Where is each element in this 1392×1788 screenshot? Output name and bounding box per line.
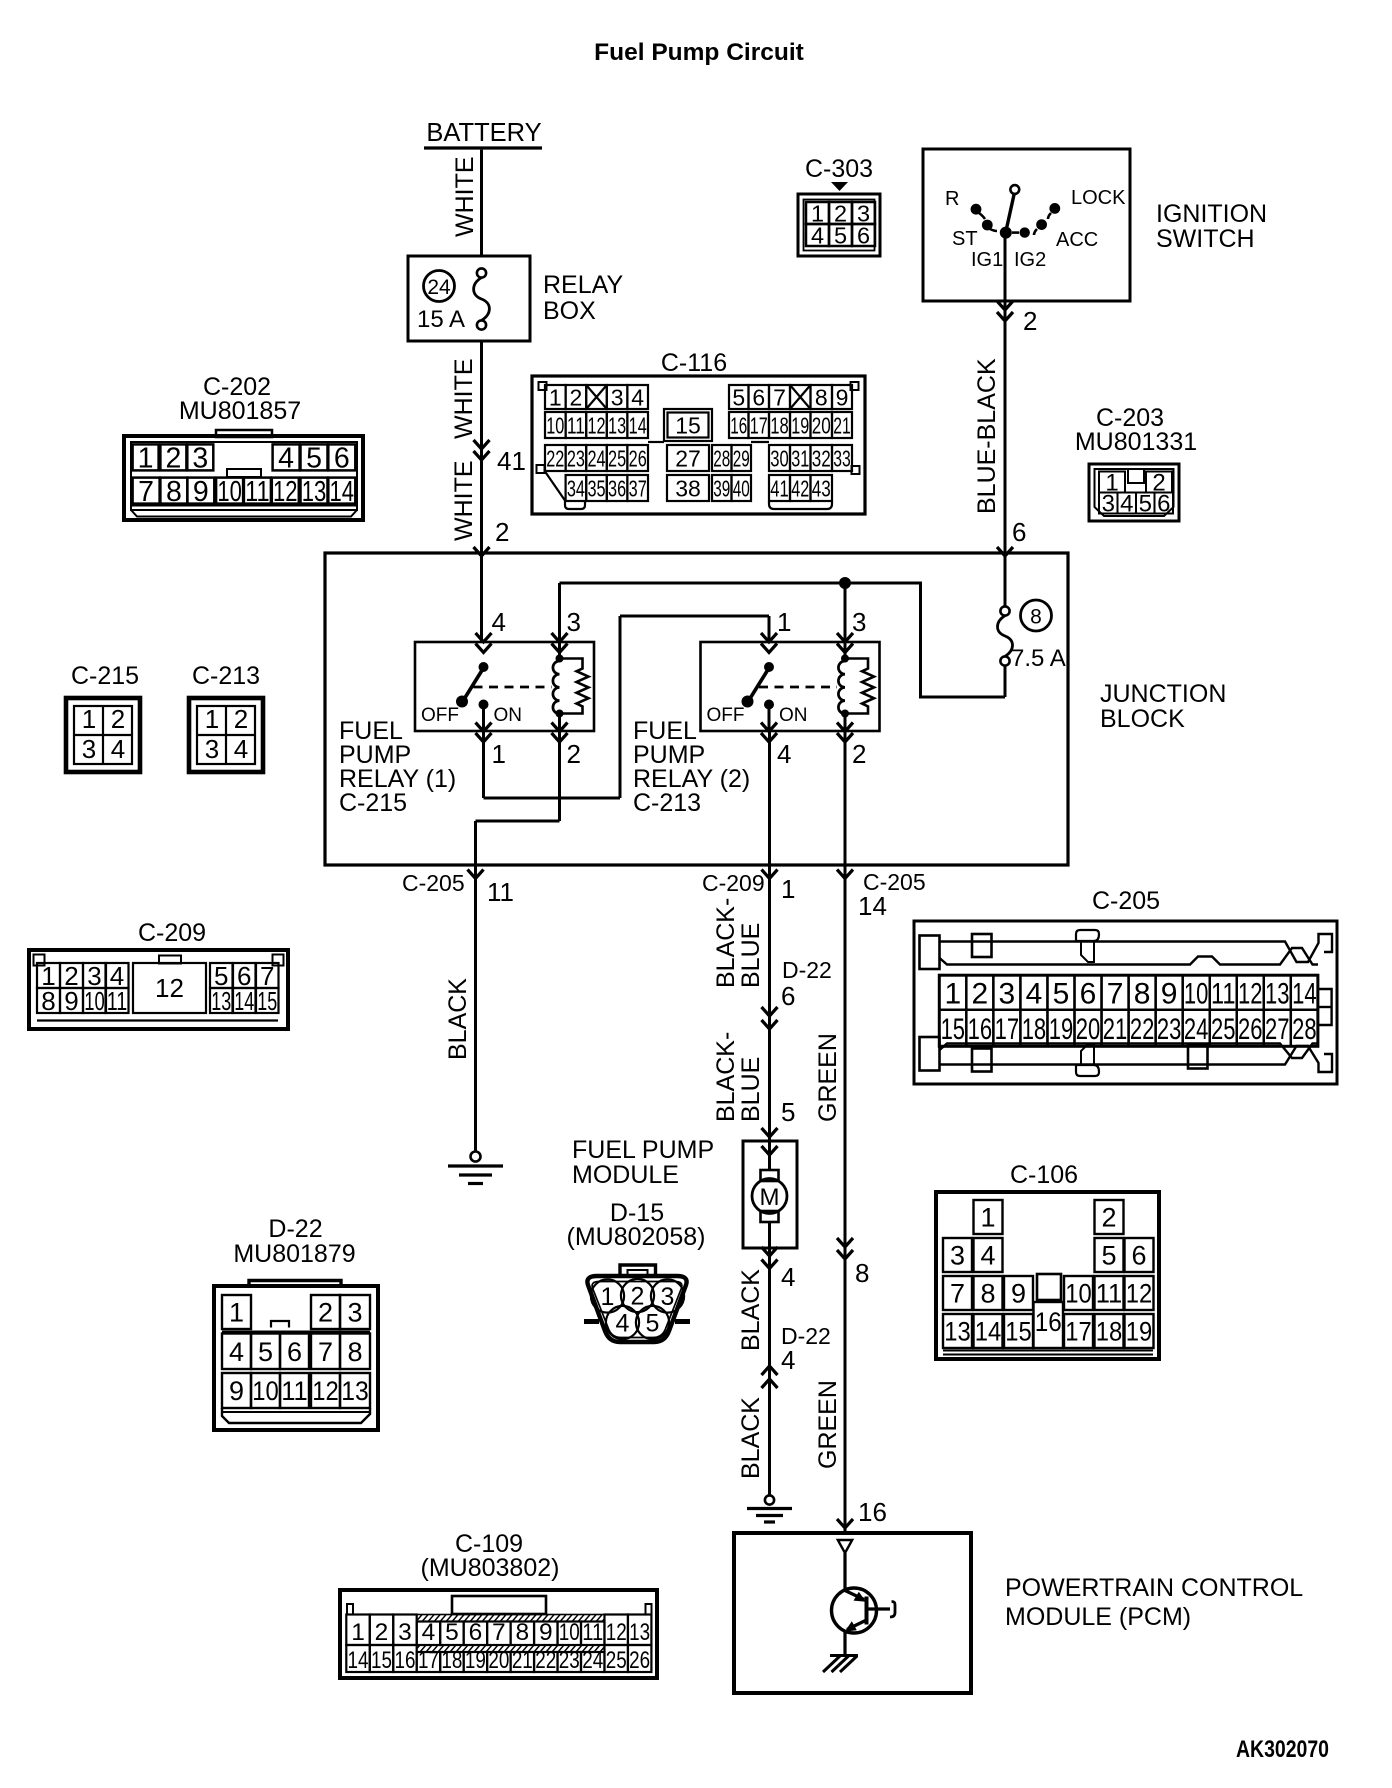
- svg-text:6: 6: [334, 443, 350, 475]
- svg-text:8: 8: [1030, 606, 1042, 629]
- svg-text:14: 14: [234, 986, 254, 1016]
- svg-text:16: 16: [730, 412, 747, 438]
- svg-text:8: 8: [855, 1258, 869, 1288]
- svg-text:38: 38: [675, 475, 701, 501]
- svg-text:ACC: ACC: [1056, 229, 1098, 251]
- svg-text:35: 35: [587, 475, 605, 501]
- connector C-215: [66, 662, 140, 772]
- title: Fuel Pump Circuit: [594, 39, 804, 66]
- svg-text:IG1: IG1: [971, 249, 1003, 271]
- svg-text:11: 11: [582, 1619, 603, 1646]
- svg-text:10: 10: [1065, 1279, 1092, 1309]
- svg-text:7: 7: [318, 1337, 333, 1367]
- fuse F8 7.5A: [998, 553, 1066, 697]
- svg-text:42: 42: [791, 475, 809, 501]
- svg-text:1: 1: [351, 1619, 365, 1646]
- svg-text:6: 6: [1012, 517, 1026, 547]
- ignition label IG1: [971, 249, 1003, 271]
- svg-text:1: 1: [205, 704, 219, 734]
- svg-text:16: 16: [858, 1497, 887, 1527]
- svg-text:5: 5: [1101, 1241, 1116, 1271]
- svg-text:43: 43: [812, 475, 831, 501]
- ground G (left): [448, 1152, 503, 1184]
- svg-text:14: 14: [858, 891, 887, 921]
- chassis ground (PCM): [823, 1656, 858, 1673]
- svg-text:4: 4: [492, 607, 506, 637]
- svg-text:5: 5: [306, 443, 322, 475]
- svg-text:11: 11: [245, 476, 270, 508]
- relay 2 pin arrows and numbers: [761, 607, 866, 769]
- svg-text:13: 13: [1265, 977, 1290, 1010]
- svg-text:10: 10: [84, 986, 105, 1016]
- relay 2 switch: [707, 662, 838, 731]
- svg-text:R: R: [945, 188, 959, 210]
- svg-text:C-215: C-215: [71, 662, 139, 690]
- svg-text:2: 2: [852, 739, 866, 769]
- svg-text:7: 7: [950, 1279, 965, 1309]
- C-205 top latch: [920, 930, 1333, 969]
- svg-text:5: 5: [834, 222, 847, 248]
- svg-text:6: 6: [857, 222, 870, 248]
- svg-text:2: 2: [567, 739, 581, 769]
- svg-text:C-213: C-213: [192, 662, 260, 690]
- svg-text:12: 12: [273, 476, 298, 508]
- svg-text:MU801331: MU801331: [1075, 428, 1197, 456]
- svg-text:4: 4: [631, 384, 644, 410]
- svg-text:34: 34: [567, 475, 585, 501]
- svg-text:8: 8: [41, 986, 55, 1016]
- svg-text:10: 10: [546, 412, 564, 438]
- svg-text:4: 4: [781, 1262, 795, 1292]
- wire: BLACK to ground (C-205 pin 11): [402, 865, 514, 1152]
- svg-text:12: 12: [1126, 1279, 1153, 1309]
- C-205 side lock: [1318, 989, 1332, 1025]
- wire: fuse 8 to relay coils (node): [560, 583, 1006, 699]
- svg-text:4: 4: [980, 1241, 995, 1271]
- svg-text:14: 14: [1292, 977, 1317, 1010]
- svg-text:13: 13: [341, 1376, 369, 1406]
- svg-text:9: 9: [229, 1376, 244, 1406]
- svg-text:16: 16: [968, 1013, 993, 1046]
- svg-text:9: 9: [836, 384, 849, 410]
- svg-text:M: M: [760, 1184, 780, 1211]
- svg-text:11: 11: [1211, 977, 1236, 1010]
- svg-text:BATTERY: BATTERY: [426, 119, 541, 147]
- svg-text:IGNITION: IGNITION: [1156, 200, 1267, 228]
- svg-text:C-106: C-106: [1010, 1161, 1078, 1189]
- svg-text:24: 24: [1184, 1013, 1209, 1046]
- relay 2 coil: [838, 642, 849, 731]
- svg-text:6: 6: [1080, 977, 1097, 1010]
- svg-text:WHITE: WHITE: [451, 156, 479, 237]
- connector C-106: [936, 1161, 1159, 1359]
- svg-text:17: 17: [1065, 1317, 1092, 1347]
- svg-text:14: 14: [975, 1317, 1002, 1347]
- svg-text:6: 6: [1157, 491, 1170, 518]
- svg-text:22: 22: [1130, 1013, 1155, 1046]
- svg-text:OFF: OFF: [421, 705, 459, 726]
- fuse F24 15A: [417, 268, 489, 333]
- svg-text:2: 2: [1023, 306, 1037, 336]
- svg-text:4: 4: [1120, 491, 1133, 518]
- svg-text:2: 2: [318, 1298, 333, 1328]
- svg-text:GREEN: GREEN: [814, 1380, 842, 1469]
- wire: relay box to junction block (WHITE, pin 41, pin 2): [450, 341, 526, 556]
- svg-text:7: 7: [773, 384, 786, 410]
- svg-text:23: 23: [1157, 1013, 1182, 1046]
- svg-text:13: 13: [302, 476, 327, 508]
- svg-text:32: 32: [812, 445, 831, 471]
- connector C-109 / MU803802: [340, 1530, 657, 1678]
- svg-text:12: 12: [587, 412, 605, 438]
- svg-text:8: 8: [980, 1279, 995, 1309]
- transistor Q1: [832, 1553, 896, 1655]
- PCM input arrowhead (pin 16): [838, 1540, 852, 1553]
- svg-text:BLUE: BLUE: [737, 923, 765, 988]
- drawing number AK302070: [1236, 1736, 1329, 1763]
- svg-text:(MU803802): (MU803802): [421, 1554, 560, 1582]
- ignition switch rotor contact (lever): [1000, 185, 1019, 239]
- svg-text:17: 17: [995, 1013, 1020, 1046]
- connector D-15 / MU802058: [567, 1199, 706, 1342]
- svg-text:25: 25: [608, 445, 626, 471]
- svg-text:12: 12: [155, 973, 184, 1003]
- svg-text:2: 2: [631, 1283, 645, 1311]
- powertrain control module (PCM) box: [734, 1533, 1303, 1693]
- svg-text:2: 2: [111, 704, 125, 734]
- svg-text:3: 3: [398, 1619, 412, 1646]
- svg-text:6: 6: [781, 981, 795, 1011]
- svg-text:4: 4: [278, 443, 294, 475]
- svg-text:28: 28: [1292, 1013, 1317, 1046]
- wire: relay 2 pin 4 down to C-209 pin 1: [768, 731, 771, 865]
- svg-text:1: 1: [82, 704, 96, 734]
- svg-text:9: 9: [1011, 1279, 1026, 1309]
- svg-text:3: 3: [852, 607, 866, 637]
- svg-text:10: 10: [252, 1376, 279, 1406]
- svg-text:C-205: C-205: [402, 870, 465, 896]
- motor M1 (fuel pump): [752, 1141, 787, 1248]
- connector C-213: [189, 662, 263, 772]
- svg-text:2: 2: [495, 517, 509, 547]
- wire: relay 2 pin 3 to node: [844, 583, 847, 642]
- svg-text:18: 18: [441, 1647, 462, 1674]
- svg-text:9: 9: [193, 476, 209, 508]
- wire: GREEN (C-205 pin 14 to C-106 pin 8 to PCM pin 16): [814, 865, 926, 1533]
- svg-text:40: 40: [733, 475, 750, 501]
- svg-text:WHITE: WHITE: [450, 358, 478, 439]
- connector C-116: [532, 349, 865, 514]
- svg-text:4: 4: [234, 734, 248, 764]
- svg-text:2: 2: [165, 443, 181, 475]
- svg-text:16: 16: [1035, 1307, 1062, 1337]
- svg-text:26: 26: [629, 1647, 650, 1674]
- svg-text:C-213: C-213: [633, 789, 701, 817]
- svg-text:1: 1: [138, 443, 154, 475]
- svg-text:10: 10: [1184, 977, 1209, 1010]
- svg-text:1: 1: [781, 874, 795, 904]
- svg-text:7.5 A: 7.5 A: [1011, 645, 1066, 672]
- svg-text:1: 1: [980, 1203, 995, 1233]
- svg-text:BLACK: BLACK: [444, 978, 472, 1060]
- svg-text:18: 18: [1022, 1013, 1047, 1046]
- svg-text:OFF: OFF: [707, 705, 745, 726]
- relay 1 coil resistor: [560, 659, 589, 714]
- svg-text:13: 13: [608, 412, 626, 438]
- svg-text:(MU802058): (MU802058): [567, 1223, 706, 1251]
- svg-text:AK302070: AK302070: [1236, 1736, 1329, 1763]
- relay 1 switch: [421, 662, 552, 731]
- svg-text:4: 4: [1026, 977, 1043, 1010]
- svg-text:11: 11: [281, 1376, 308, 1406]
- svg-text:2: 2: [972, 977, 989, 1010]
- svg-text:8: 8: [815, 384, 828, 410]
- svg-text:15: 15: [941, 1013, 966, 1046]
- svg-text:D-22: D-22: [782, 957, 832, 983]
- svg-text:LOCK: LOCK: [1071, 187, 1126, 209]
- ignition contact ST: [952, 220, 997, 250]
- svg-text:5: 5: [732, 384, 745, 410]
- svg-text:21: 21: [512, 1647, 533, 1674]
- svg-text:12: 12: [312, 1376, 339, 1406]
- svg-text:30: 30: [770, 445, 789, 471]
- svg-text:37: 37: [629, 475, 647, 501]
- svg-text:15: 15: [257, 986, 277, 1016]
- svg-text:10: 10: [217, 476, 242, 508]
- svg-text:19: 19: [791, 412, 809, 438]
- battery B+: [424, 119, 542, 148]
- fuel pump relay 1: [415, 642, 594, 731]
- svg-text:14: 14: [330, 476, 355, 508]
- svg-text:2: 2: [234, 704, 248, 734]
- svg-text:36: 36: [608, 475, 626, 501]
- svg-text:C-205: C-205: [1092, 887, 1160, 915]
- wire: relay 1 pin 1 to relay 2 pin 1: [484, 616, 770, 798]
- svg-text:8: 8: [1134, 977, 1151, 1010]
- svg-text:3: 3: [82, 734, 96, 764]
- svg-text:25: 25: [1211, 1013, 1236, 1046]
- wire: relay 2 pin 2 down to C-205 pin 14: [844, 731, 847, 865]
- svg-text:6: 6: [1131, 1241, 1146, 1271]
- svg-text:ST: ST: [952, 228, 978, 250]
- svg-text:3: 3: [950, 1241, 965, 1271]
- svg-text:27: 27: [1265, 1013, 1290, 1046]
- svg-text:C-215: C-215: [339, 789, 407, 817]
- svg-text:28: 28: [713, 445, 730, 471]
- svg-text:27: 27: [675, 445, 701, 471]
- svg-text:C-209: C-209: [702, 870, 765, 896]
- svg-text:14: 14: [348, 1647, 369, 1674]
- svg-text:39: 39: [713, 475, 730, 501]
- svg-text:5: 5: [781, 1097, 795, 1127]
- svg-text:5: 5: [258, 1337, 273, 1367]
- svg-text:25: 25: [606, 1647, 627, 1674]
- relay 1 coil: [553, 642, 564, 731]
- svg-text:15: 15: [1005, 1317, 1032, 1347]
- svg-text:41: 41: [770, 475, 789, 501]
- svg-text:13: 13: [944, 1317, 971, 1347]
- svg-text:3: 3: [661, 1283, 675, 1311]
- svg-text:22: 22: [535, 1647, 556, 1674]
- svg-text:17: 17: [750, 412, 768, 438]
- svg-text:8: 8: [166, 476, 182, 508]
- svg-text:18: 18: [770, 412, 789, 438]
- connector C-303: [798, 155, 880, 256]
- svg-text:ON: ON: [494, 705, 523, 726]
- svg-text:5: 5: [646, 1310, 660, 1338]
- svg-text:24: 24: [427, 276, 451, 299]
- svg-text:BLACK: BLACK: [737, 1397, 765, 1479]
- fuel pump relay 2: [701, 642, 880, 731]
- svg-text:6: 6: [287, 1337, 302, 1367]
- svg-text:Fuel Pump Circuit: Fuel Pump Circuit: [594, 39, 804, 66]
- svg-text:4: 4: [111, 734, 125, 764]
- svg-text:13: 13: [211, 986, 231, 1016]
- svg-text:13: 13: [629, 1619, 650, 1646]
- relay 1 pin arrows and numbers: [476, 607, 581, 769]
- svg-text:1: 1: [777, 607, 791, 637]
- ground G (fuel pump): [747, 1495, 792, 1522]
- svg-text:19: 19: [1126, 1317, 1153, 1347]
- svg-text:7: 7: [492, 1619, 506, 1646]
- svg-text:15 A: 15 A: [417, 306, 465, 333]
- svg-text:6: 6: [469, 1619, 483, 1646]
- svg-text:9: 9: [64, 986, 78, 1016]
- svg-text:23: 23: [559, 1647, 580, 1674]
- svg-text:18: 18: [1096, 1317, 1123, 1347]
- svg-text:C-303: C-303: [805, 155, 873, 183]
- svg-text:24: 24: [587, 445, 605, 471]
- svg-text:WHITE: WHITE: [450, 460, 478, 541]
- svg-text:12: 12: [1238, 977, 1263, 1010]
- connector C-205: [914, 887, 1337, 1084]
- svg-text:4: 4: [229, 1337, 244, 1367]
- svg-text:19: 19: [465, 1647, 486, 1674]
- svg-text:3: 3: [999, 977, 1016, 1010]
- svg-text:41: 41: [497, 446, 526, 476]
- svg-text:15: 15: [371, 1647, 392, 1674]
- svg-text:8: 8: [347, 1337, 362, 1367]
- svg-text:2: 2: [570, 384, 583, 410]
- svg-text:11: 11: [567, 412, 585, 438]
- svg-text:MU801879: MU801879: [233, 1240, 355, 1268]
- svg-text:20: 20: [1076, 1013, 1101, 1046]
- svg-text:5: 5: [1139, 491, 1152, 518]
- svg-text:3: 3: [1102, 491, 1115, 518]
- svg-text:ON: ON: [779, 705, 808, 726]
- svg-text:BLACK-: BLACK-: [712, 898, 740, 988]
- svg-text:BLACK-: BLACK-: [712, 1032, 740, 1122]
- svg-text:12: 12: [606, 1619, 627, 1646]
- svg-text:MODULE (PCM): MODULE (PCM): [1005, 1603, 1191, 1631]
- svg-text:1: 1: [492, 739, 506, 769]
- svg-text:C-209: C-209: [138, 919, 206, 947]
- svg-text:19: 19: [1049, 1013, 1074, 1046]
- svg-text:JUNCTION: JUNCTION: [1100, 680, 1226, 708]
- svg-text:22: 22: [546, 445, 564, 471]
- wire: relay 1 pin 4 from block top: [480, 553, 483, 642]
- svg-text:BLOCK: BLOCK: [1100, 705, 1185, 733]
- svg-text:20: 20: [812, 412, 831, 438]
- relay 2 coil resistor: [845, 659, 874, 714]
- ignition contact ACC: [1034, 219, 1098, 251]
- svg-text:20: 20: [488, 1647, 509, 1674]
- svg-text:BLACK: BLACK: [737, 1269, 765, 1351]
- svg-text:17: 17: [418, 1647, 439, 1674]
- svg-text:BLUE-BLACK: BLUE-BLACK: [973, 358, 1001, 514]
- C-205 pin grid: [939, 975, 1318, 1046]
- wire: relay 1 pin 3 to node: [558, 583, 561, 642]
- svg-text:2: 2: [1101, 1203, 1116, 1233]
- svg-text:C-116: C-116: [661, 349, 727, 377]
- svg-text:11: 11: [107, 986, 128, 1016]
- svg-text:3: 3: [205, 734, 219, 764]
- svg-text:31: 31: [791, 445, 809, 471]
- svg-text:16: 16: [394, 1647, 415, 1674]
- svg-text:SWITCH: SWITCH: [1156, 225, 1255, 253]
- svg-text:9: 9: [1161, 977, 1178, 1010]
- svg-text:3: 3: [611, 384, 624, 410]
- svg-text:23: 23: [567, 445, 585, 471]
- svg-text:7: 7: [1107, 977, 1124, 1010]
- svg-text:4: 4: [811, 222, 824, 248]
- junction node dot: [839, 577, 851, 589]
- svg-text:11: 11: [487, 877, 514, 907]
- svg-text:11: 11: [1096, 1279, 1123, 1309]
- fuel pump module: [572, 1136, 797, 1248]
- connector C-209: [29, 919, 288, 1029]
- svg-text:6: 6: [752, 384, 765, 410]
- wire: BLACK-BLUE (C-209 pin 1 to D-22 pin 6 to pump pin 5): [702, 865, 832, 1155]
- ignition contact R: [945, 188, 985, 219]
- connector C-203 / MU801331: [1075, 404, 1197, 521]
- svg-text:8: 8: [516, 1619, 530, 1646]
- svg-text:MODULE: MODULE: [572, 1161, 679, 1189]
- svg-text:GREEN: GREEN: [814, 1033, 842, 1122]
- wire: ignition switch pin 2 to junction block (BLUE-BLACK): [973, 238, 1037, 556]
- svg-text:14: 14: [629, 412, 647, 438]
- svg-text:24: 24: [582, 1647, 603, 1674]
- svg-text:33: 33: [833, 445, 851, 471]
- svg-text:RELAY: RELAY: [543, 271, 623, 299]
- svg-text:9: 9: [539, 1619, 553, 1646]
- wire: battery to relay box (WHITE): [451, 150, 482, 256]
- ignition switch: [923, 149, 1267, 301]
- svg-text:3: 3: [567, 607, 581, 637]
- C-205 bottom latch: [920, 1037, 1333, 1076]
- junction block: [325, 553, 1226, 865]
- svg-text:7: 7: [138, 476, 154, 508]
- relay 2 name label: [633, 717, 750, 817]
- svg-text:4: 4: [781, 1345, 795, 1375]
- svg-text:10: 10: [559, 1619, 580, 1646]
- svg-text:4: 4: [777, 739, 791, 769]
- svg-text:POWERTRAIN CONTROL: POWERTRAIN CONTROL: [1005, 1574, 1303, 1602]
- svg-text:1: 1: [229, 1298, 244, 1328]
- svg-text:29: 29: [733, 445, 750, 471]
- svg-text:3: 3: [192, 443, 208, 475]
- svg-text:MU801857: MU801857: [179, 397, 301, 425]
- svg-text:BOX: BOX: [543, 297, 596, 325]
- ignition contact LOCK: [1048, 187, 1126, 219]
- svg-text:4: 4: [422, 1619, 436, 1646]
- svg-text:3: 3: [347, 1298, 362, 1328]
- svg-text:5: 5: [1053, 977, 1070, 1010]
- svg-text:21: 21: [833, 412, 851, 438]
- svg-text:4: 4: [616, 1310, 630, 1338]
- svg-text:BLUE: BLUE: [737, 1057, 765, 1122]
- connector D-22 / MU801879: [214, 1215, 378, 1430]
